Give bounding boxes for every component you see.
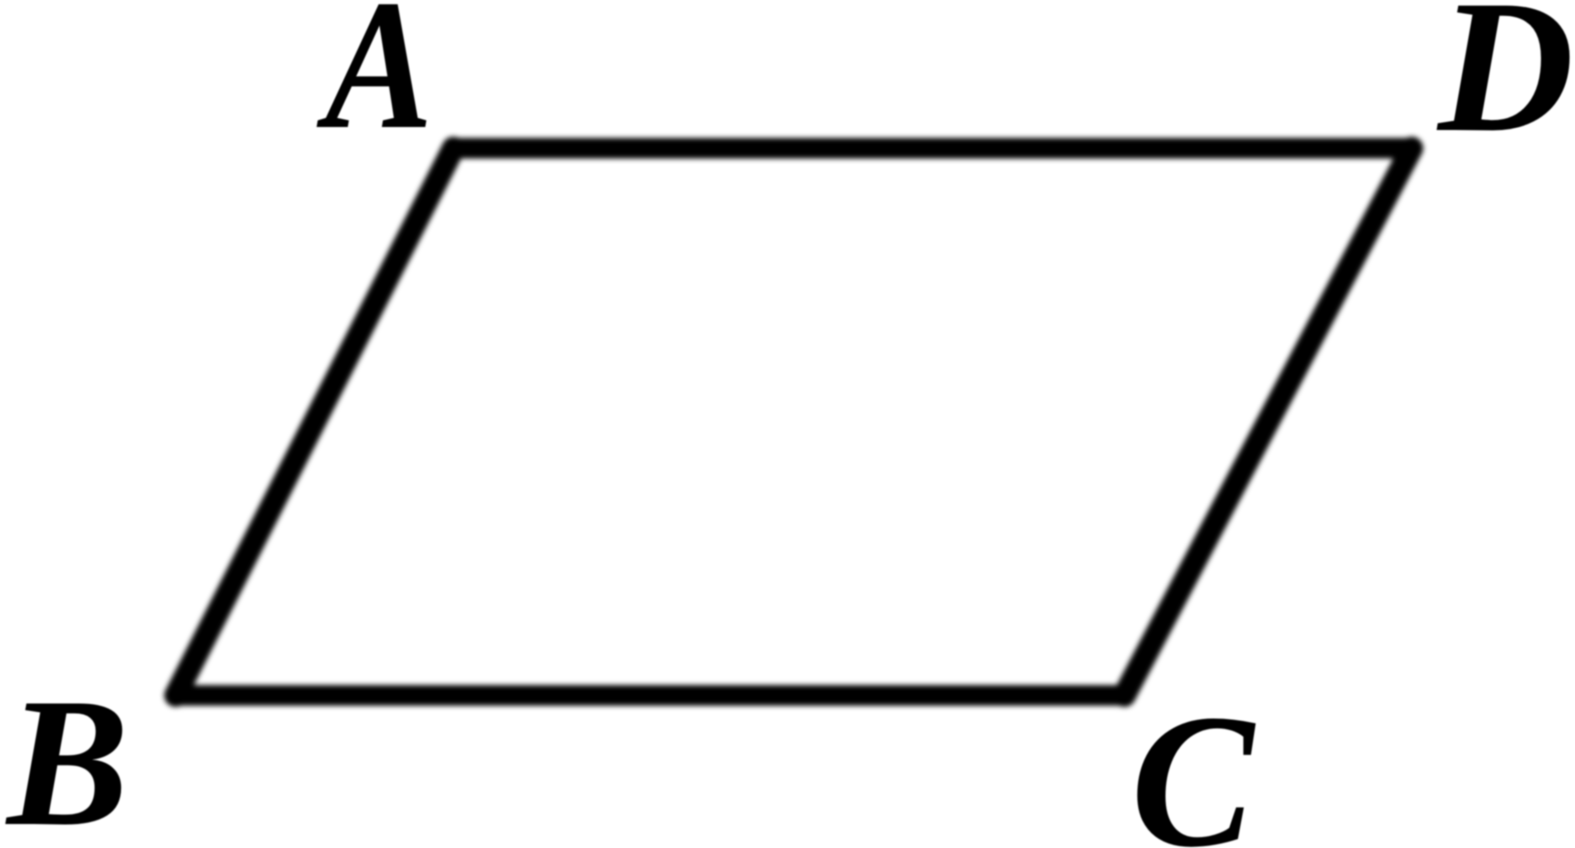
side AD (top)	[453, 138, 1411, 159]
side CB (bottom)	[176, 685, 1125, 706]
side BA (left)	[176, 148, 454, 695]
svg-text:B: B	[5, 660, 129, 848]
side DC (right)	[1124, 148, 1411, 695]
svg-text:D: D	[1436, 0, 1574, 172]
svg-text:A: A	[316, 0, 433, 168]
svg-text:C: C	[1131, 676, 1257, 848]
